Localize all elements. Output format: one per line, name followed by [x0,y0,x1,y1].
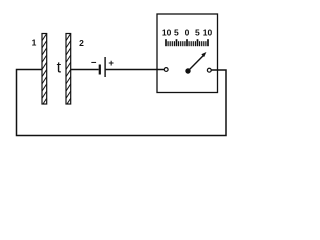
svg-text:0: 0 [185,28,190,38]
svg-text:1: 1 [32,38,37,48]
svg-text:10: 10 [203,28,213,38]
svg-text:−: − [91,57,97,68]
svg-text:t: t [57,60,62,77]
svg-text:+: + [108,58,114,69]
svg-text:10: 10 [162,28,172,38]
svg-text:2: 2 [79,38,84,48]
svg-text:5: 5 [195,28,200,38]
svg-text:5: 5 [174,28,179,38]
